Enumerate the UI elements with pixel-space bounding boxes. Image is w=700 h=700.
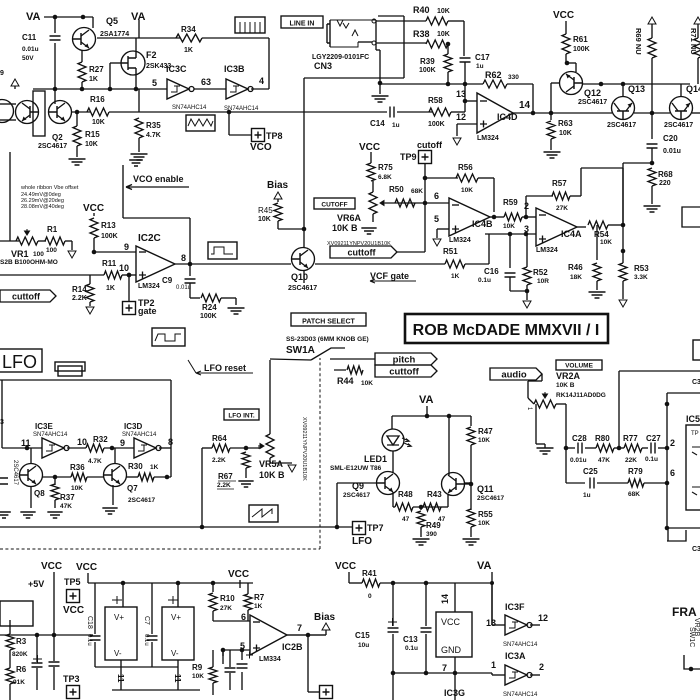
svg-text:VA: VA	[419, 394, 434, 406]
wire	[580, 168, 582, 196]
wire	[38, 240, 46, 242]
junction	[621, 223, 626, 228]
wire	[277, 199, 279, 202]
svg-text:Q13: Q13	[628, 84, 645, 94]
svg-text:2SC4617: 2SC4617	[664, 122, 693, 129]
svg-text:2SC4617: 2SC4617	[578, 99, 607, 106]
wire	[447, 494, 449, 507]
resistor R80	[596, 444, 614, 452]
resistor R56	[456, 174, 478, 182]
potentiometer VR6A wiper	[380, 201, 386, 206]
svg-text:14: 14	[440, 594, 450, 604]
wire	[530, 624, 540, 626]
wire	[159, 447, 171, 449]
svg-text:10K: 10K	[559, 130, 572, 137]
connector (header) symbol	[235, 17, 265, 33]
wire	[104, 447, 134, 449]
wire	[175, 263, 291, 265]
wire	[619, 370, 700, 372]
wire	[509, 234, 511, 268]
wire	[425, 583, 427, 673]
wire	[651, 113, 653, 139]
svg-text:R55: R55	[478, 510, 493, 519]
wire	[622, 163, 624, 251]
wire	[235, 298, 237, 305]
wire	[470, 527, 472, 537]
wire	[42, 476, 71, 478]
wire	[585, 447, 596, 449]
svg-text:2SC4617: 2SC4617	[38, 143, 67, 150]
wire	[426, 406, 428, 416]
junction	[35, 633, 40, 638]
svg-text:Q2: Q2	[52, 133, 63, 142]
junction	[92, 250, 97, 255]
resistor R51	[445, 260, 465, 268]
svg-text:R13: R13	[101, 221, 116, 230]
svg-text:R16: R16	[90, 95, 105, 104]
wire	[470, 445, 472, 510]
svg-text:R49: R49	[426, 521, 441, 530]
transistor Q2	[49, 101, 72, 124]
arrow down VR5A	[288, 465, 296, 472]
wire	[420, 527, 422, 537]
arrow up Bias	[274, 192, 282, 199]
svg-text:8: 8	[181, 253, 186, 263]
svg-text:C13: C13	[403, 635, 418, 644]
wire	[122, 274, 136, 276]
wire long gate row	[0, 274, 104, 276]
wire	[65, 240, 72, 242]
inverter IC3B	[226, 79, 248, 99]
svg-text:VCC: VCC	[359, 142, 380, 153]
test point TP8	[252, 129, 265, 142]
svg-text:RK14J11AD0DG: RK14J11AD0DG	[556, 392, 606, 399]
svg-text:R14: R14	[72, 285, 87, 294]
svg-text:14: 14	[519, 100, 531, 111]
svg-text:2SC4617: 2SC4617	[477, 495, 504, 502]
svg-text:R44: R44	[337, 376, 354, 386]
wire	[658, 447, 667, 449]
svg-text:R71 NU: R71 NU	[689, 28, 698, 55]
svg-text:SS-23D03 (6MM KNOB GE): SS-23D03 (6MM KNOB GE)	[286, 336, 369, 343]
svg-text:R36: R36	[70, 463, 85, 472]
wire	[577, 226, 586, 228]
svg-text:VCC: VCC	[41, 561, 62, 572]
junction	[453, 671, 458, 676]
junction	[689, 667, 694, 672]
wire	[81, 50, 83, 62]
svg-text:Bias: Bias	[267, 180, 289, 191]
svg-text:R9: R9	[192, 663, 203, 672]
svg-text:S2B B100OHM-MO: S2B B100OHM-MO	[0, 259, 58, 266]
ground under R68	[644, 206, 661, 212]
resistor R79	[628, 479, 644, 487]
transistor Q11	[442, 473, 465, 496]
wire	[138, 138, 140, 152]
junction	[621, 82, 626, 87]
svg-text:6: 6	[241, 612, 246, 622]
inverter IC3E	[42, 438, 64, 458]
transistor Q5	[73, 28, 96, 51]
svg-text:10K: 10K	[71, 485, 83, 492]
svg-text:1K: 1K	[150, 464, 159, 471]
svg-text:V-: V-	[114, 649, 122, 658]
svg-text:R62: R62	[485, 70, 502, 80]
boxed label LFO INT	[224, 409, 259, 420]
ground small	[129, 160, 143, 166]
wire	[492, 674, 505, 676]
wire VCO enable arrow	[126, 185, 189, 190]
wire	[692, 112, 700, 114]
resistor R13	[90, 218, 98, 238]
wire right bus	[666, 393, 668, 528]
svg-text:LM324: LM324	[477, 135, 499, 142]
svg-text:0: 0	[368, 593, 372, 600]
svg-text:4.7K: 4.7K	[88, 458, 102, 465]
wire	[239, 580, 241, 583]
svg-text:C11: C11	[22, 33, 37, 42]
title box ROB McDADE MMXVII / I	[405, 314, 608, 343]
svg-text:VR6A: VR6A	[337, 213, 362, 223]
svg-text:IC2C: IC2C	[138, 233, 161, 244]
svg-text:Bias: Bias	[314, 612, 336, 623]
resistor R52	[523, 267, 531, 285]
wire	[622, 251, 624, 263]
svg-text:R47: R47	[478, 427, 493, 436]
wire	[551, 82, 560, 84]
svg-text:R27: R27	[89, 65, 104, 74]
svg-text:1K: 1K	[106, 285, 115, 292]
junction	[25, 446, 30, 451]
junction	[127, 273, 132, 278]
resistor R36	[71, 473, 87, 481]
svg-text:7: 7	[442, 663, 447, 673]
wire	[596, 281, 598, 290]
wire main signal row	[109, 111, 387, 113]
wire	[177, 660, 179, 690]
resistor R71	[694, 38, 700, 58]
wire	[385, 202, 425, 204]
flag audio	[490, 368, 542, 380]
svg-text:100K: 100K	[101, 233, 118, 240]
wire	[348, 572, 350, 583]
wire	[513, 112, 551, 114]
wire	[349, 582, 362, 584]
svg-text:SN74AHC14: SN74AHC14	[172, 105, 207, 111]
wire	[212, 683, 214, 695]
wire bottom row2	[112, 689, 200, 691]
boxed label LINE IN	[281, 16, 323, 28]
wire	[53, 572, 55, 580]
svg-text:C9: C9	[162, 276, 173, 285]
junction	[240, 648, 245, 653]
wire	[491, 673, 493, 675]
svg-text:18K: 18K	[570, 274, 582, 281]
underline VCF gate	[370, 279, 416, 283]
photoresistor box	[186, 115, 215, 131]
svg-text:TP9: TP9	[400, 152, 417, 162]
wire	[229, 134, 251, 136]
transistor Q1 (partial)	[0, 100, 14, 123]
wire	[424, 163, 426, 252]
svg-text:68K: 68K	[411, 188, 423, 195]
junction	[665, 402, 670, 407]
ground left edge	[0, 512, 11, 518]
svg-text:LM324: LM324	[449, 237, 471, 244]
svg-text:C16: C16	[484, 267, 499, 276]
wire	[212, 650, 214, 667]
wire	[490, 216, 504, 218]
svg-text:1: 1	[491, 660, 496, 670]
svg-text:10K: 10K	[478, 520, 490, 527]
wire	[202, 37, 269, 39]
svg-text:C18: C18	[86, 616, 93, 629]
svg-text:1K: 1K	[184, 47, 193, 54]
wire	[614, 447, 624, 449]
capacitor C17	[460, 58, 471, 62]
wire	[337, 482, 376, 484]
wire	[493, 178, 495, 212]
svg-text:IC3F: IC3F	[505, 602, 525, 612]
resistor R43	[423, 503, 441, 511]
svg-text:10K: 10K	[361, 380, 373, 387]
arrow down IC4D+	[453, 138, 461, 145]
capacitor C18	[90, 636, 101, 640]
waveform symbol box upper	[152, 328, 185, 346]
junction	[391, 581, 396, 586]
dashed LFO section border bottom	[0, 548, 320, 550]
transistor Q13	[612, 97, 635, 120]
resistor R59	[504, 213, 522, 221]
inverter IC3F	[505, 615, 527, 635]
wire	[526, 195, 553, 197]
svg-text:C28: C28	[572, 434, 587, 443]
wire	[550, 113, 552, 120]
svg-text:R35: R35	[146, 121, 161, 130]
wire	[120, 660, 122, 690]
svg-text:27K: 27K	[220, 605, 232, 612]
junction	[244, 446, 249, 451]
polar cap C mark	[33, 655, 42, 663]
wire	[223, 649, 250, 651]
flag cuttoff low	[375, 365, 437, 377]
svg-text:cutoff: cutoff	[417, 140, 443, 150]
wire	[488, 234, 490, 264]
junction	[81, 15, 86, 20]
junction	[650, 111, 655, 116]
wire	[530, 674, 540, 676]
svg-text:cuttoff: cuttoff	[348, 248, 377, 258]
arrow down R1	[68, 251, 76, 258]
svg-text:9: 9	[124, 242, 129, 252]
svg-text:100K: 100K	[573, 46, 590, 53]
junction	[108, 87, 113, 92]
wire	[376, 20, 426, 22]
svg-text:220: 220	[659, 180, 671, 187]
svg-text:10K B: 10K B	[332, 223, 358, 233]
wire	[2, 447, 42, 449]
svg-text:28.08mV@40deg: 28.08mV@40deg	[21, 204, 64, 210]
ground under R15	[69, 159, 86, 165]
wire	[239, 583, 241, 588]
svg-text:R75: R75	[378, 163, 393, 172]
junction	[525, 289, 530, 294]
resistor R58	[429, 108, 451, 116]
wire corner top right 2	[667, 530, 669, 541]
wire	[379, 78, 381, 94]
resistor R9	[209, 667, 217, 683]
svg-text:SW1C: SW1C	[688, 627, 695, 647]
wire	[177, 583, 179, 607]
wire	[551, 112, 612, 114]
wire	[269, 360, 271, 434]
transistor Q14	[670, 97, 693, 120]
svg-text:12: 12	[538, 613, 548, 623]
capacitor C13	[421, 628, 432, 632]
potentiometer VR5A wiper	[258, 444, 264, 449]
wire	[228, 112, 230, 135]
wire	[596, 225, 598, 260]
arrow up left	[11, 79, 19, 86]
svg-text:PATCH SELECT: PATCH SELECT	[302, 319, 355, 326]
transistor F2 (JFET 2SK433)	[121, 51, 145, 75]
wire	[97, 37, 180, 39]
wire	[527, 381, 529, 398]
wire	[622, 168, 624, 225]
svg-text:2: 2	[670, 438, 675, 448]
resistor R34	[176, 34, 202, 42]
wire LFO feedback left	[1, 380, 3, 448]
svg-text:SN74AHC14: SN74AHC14	[503, 692, 538, 698]
junction	[524, 215, 529, 220]
wire	[565, 21, 567, 34]
square wave symbol box	[208, 242, 237, 259]
svg-text:390: 390	[426, 531, 437, 538]
svg-text:R80: R80	[595, 434, 610, 443]
wire	[54, 17, 56, 33]
svg-text:27K: 27K	[556, 205, 568, 212]
opamp IC4D	[477, 93, 513, 133]
svg-text:0.1u: 0.1u	[143, 634, 149, 646]
svg-text:2SC4617: 2SC4617	[343, 492, 370, 499]
svg-text:2SC4617: 2SC4617	[607, 122, 636, 129]
resistor R48	[395, 503, 413, 511]
transistor Q3	[16, 101, 39, 124]
wire	[651, 58, 653, 113]
wire	[541, 374, 543, 381]
triangle wave symbol box	[249, 505, 278, 522]
svg-text:SW1A: SW1A	[286, 345, 315, 356]
svg-text:R64: R64	[212, 434, 227, 443]
box component right edge	[682, 207, 700, 227]
wire	[9, 684, 11, 700]
resistor R47	[467, 427, 475, 445]
junction	[227, 110, 232, 115]
svg-text:12: 12	[456, 112, 466, 122]
svg-text:R54: R54	[594, 230, 609, 239]
svg-text:VCC: VCC	[228, 569, 249, 580]
audio jack CN3	[327, 20, 330, 47]
resistor R69	[648, 38, 656, 58]
boxed label VOLUME	[556, 360, 602, 370]
test point TP2	[123, 302, 136, 315]
svg-text:2SC4617: 2SC4617	[128, 497, 155, 504]
svg-text:R61: R61	[573, 35, 588, 44]
component box small	[55, 362, 85, 371]
wire Q13 Q14 base bus	[582, 83, 690, 85]
resistor R46	[593, 263, 601, 281]
wire	[9, 620, 11, 634]
wire	[644, 482, 667, 484]
wire	[110, 62, 121, 64]
wire	[94, 251, 136, 253]
opamp IC2C	[136, 246, 175, 282]
svg-text:LFO: LFO	[352, 536, 372, 547]
svg-text:R57: R57	[552, 179, 567, 188]
svg-text:R39: R39	[420, 57, 435, 66]
wire	[53, 580, 55, 635]
test point TP4	[320, 686, 333, 699]
svg-text:R34: R34	[181, 25, 196, 34]
junction	[110, 446, 115, 451]
svg-text:5: 5	[434, 214, 439, 224]
wire	[53, 635, 55, 661]
svg-text:IC3E: IC3E	[35, 422, 53, 431]
svg-text:10K: 10K	[258, 216, 271, 223]
svg-text:R51: R51	[443, 247, 458, 256]
wire	[437, 228, 449, 230]
svg-text:VCO enable: VCO enable	[133, 174, 184, 184]
wire	[87, 476, 104, 478]
wire	[270, 462, 292, 464]
wire	[522, 216, 536, 218]
wire	[112, 485, 114, 505]
svg-text:CN3: CN3	[314, 61, 332, 71]
wire	[212, 611, 214, 621]
wire	[642, 447, 648, 449]
svg-text:LFO: LFO	[2, 352, 37, 372]
svg-text:0.1u: 0.1u	[86, 634, 92, 646]
wire	[526, 234, 528, 267]
svg-text:IC3A: IC3A	[505, 651, 526, 661]
svg-text:10K: 10K	[437, 8, 450, 15]
junction	[490, 581, 494, 585]
capacitor C15	[388, 628, 399, 632]
svg-text:11: 11	[116, 674, 125, 683]
junction	[306, 633, 311, 638]
wire	[507, 83, 533, 85]
wire	[30, 448, 32, 464]
wire	[492, 624, 505, 626]
wire	[457, 123, 477, 125]
wire	[376, 49, 380, 51]
wire	[81, 82, 83, 89]
svg-text:cuttoff: cuttoff	[12, 292, 41, 302]
wire	[618, 371, 620, 448]
resistor R38	[426, 40, 448, 48]
wire	[447, 72, 449, 84]
wire	[380, 83, 465, 85]
wire	[76, 146, 78, 157]
resistor R16	[87, 108, 109, 116]
resistor R27	[78, 62, 86, 82]
svg-text:R67: R67	[218, 472, 233, 481]
svg-text:1u: 1u	[476, 63, 484, 70]
svg-text:TP5: TP5	[64, 577, 81, 587]
resistor R61	[562, 34, 570, 54]
svg-text:C7: C7	[143, 616, 150, 625]
svg-text:R7: R7	[254, 593, 265, 602]
